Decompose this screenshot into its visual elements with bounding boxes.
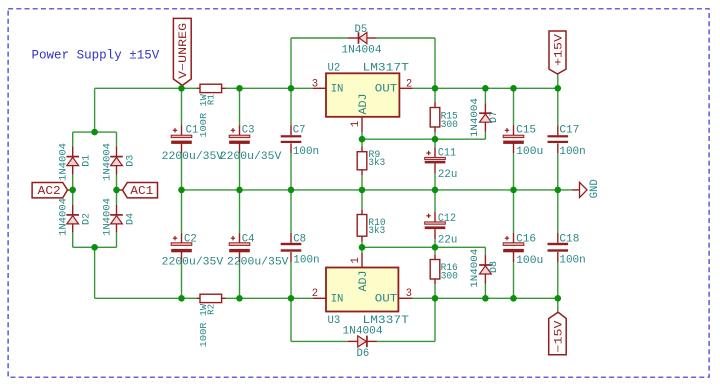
- svg-text:2200u/35V: 2200u/35V: [162, 151, 224, 163]
- svg-text:C15: C15: [516, 124, 536, 136]
- svg-text:2: 2: [406, 79, 412, 91]
- svg-text:OUT: OUT: [375, 294, 398, 306]
- svg-text:C8: C8: [293, 233, 306, 245]
- svg-text:D6: D6: [357, 348, 370, 360]
- svg-text:3: 3: [406, 288, 412, 300]
- svg-text:3k3: 3k3: [368, 225, 385, 237]
- svg-text:3k3: 3k3: [368, 157, 385, 169]
- svg-text:D1: D1: [82, 155, 93, 167]
- svg-text:R2: R2: [206, 304, 217, 315]
- svg-text:OUT: OUT: [375, 84, 398, 96]
- svg-text:GND: GND: [589, 179, 601, 198]
- svg-text:−15V: −15V: [553, 320, 565, 353]
- svg-text:300: 300: [441, 120, 458, 131]
- svg-text:AC2: AC2: [38, 184, 61, 198]
- svg-text:C12: C12: [438, 213, 456, 225]
- svg-text:100n: 100n: [559, 255, 585, 267]
- svg-text:100u: 100u: [516, 146, 543, 158]
- svg-text:1N4004: 1N4004: [59, 143, 70, 181]
- svg-text:C3: C3: [242, 124, 255, 136]
- svg-text:C7: C7: [293, 124, 306, 136]
- svg-text:2200u/35V: 2200u/35V: [162, 256, 224, 268]
- svg-text:100n: 100n: [559, 146, 585, 158]
- svg-text:D4: D4: [125, 213, 136, 225]
- svg-text:IN: IN: [331, 294, 344, 306]
- svg-text:C2: C2: [184, 233, 197, 245]
- svg-text:3: 3: [312, 79, 318, 91]
- svg-text:22u: 22u: [438, 169, 457, 181]
- svg-text:R1: R1: [206, 94, 217, 105]
- svg-text:IN: IN: [331, 84, 344, 96]
- svg-text:22u: 22u: [438, 235, 457, 247]
- svg-text:1N4004: 1N4004: [102, 143, 113, 181]
- svg-text:2200u/35V: 2200u/35V: [227, 256, 289, 268]
- svg-text:1N4004: 1N4004: [470, 249, 481, 288]
- svg-text:C17: C17: [559, 124, 579, 136]
- svg-text:ADJ: ADJ: [358, 94, 370, 115]
- svg-text:C18: C18: [559, 233, 579, 245]
- svg-text:D7: D7: [489, 111, 500, 123]
- svg-text:D2: D2: [82, 213, 93, 225]
- svg-text:C1: C1: [186, 124, 199, 136]
- svg-text:ADJ: ADJ: [358, 271, 370, 292]
- svg-text:2: 2: [312, 288, 318, 300]
- svg-text:1N4004: 1N4004: [470, 98, 481, 137]
- svg-text:100n: 100n: [293, 146, 319, 158]
- svg-text:1: 1: [350, 257, 362, 263]
- svg-text:300: 300: [441, 272, 458, 283]
- svg-text:C16: C16: [516, 233, 536, 245]
- svg-text:1N4004: 1N4004: [342, 44, 382, 56]
- svg-text:C11: C11: [438, 148, 456, 160]
- svg-text:U3: U3: [328, 315, 341, 327]
- svg-text:1N4004: 1N4004: [343, 326, 383, 338]
- svg-text:V−UNREG: V−UNREG: [178, 23, 190, 79]
- svg-text:D8: D8: [489, 261, 500, 273]
- svg-text:U2: U2: [328, 62, 341, 74]
- svg-text:AC1: AC1: [130, 184, 153, 198]
- svg-text:1N4004: 1N4004: [59, 198, 70, 236]
- svg-text:D3: D3: [125, 155, 136, 167]
- svg-text:D5: D5: [355, 24, 368, 36]
- svg-text:Power Supply ±15V: Power Supply ±15V: [32, 48, 160, 63]
- svg-text:C4: C4: [242, 233, 255, 245]
- svg-text:100n: 100n: [293, 255, 319, 267]
- svg-text:1N4004: 1N4004: [102, 198, 113, 236]
- svg-text:1: 1: [350, 121, 362, 127]
- svg-text:100u: 100u: [516, 255, 543, 267]
- svg-text:2200u/35V: 2200u/35V: [220, 151, 282, 163]
- svg-text:+15V: +15V: [553, 33, 565, 66]
- svg-text:LM317T: LM317T: [363, 62, 409, 74]
